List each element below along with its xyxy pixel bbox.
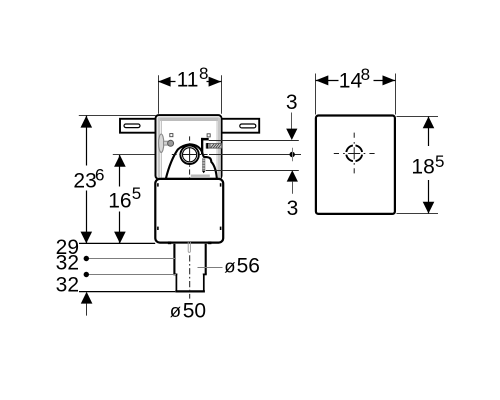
svg-text:18: 18 xyxy=(411,155,434,178)
svg-text:6: 6 xyxy=(95,166,104,185)
left wing slot xyxy=(124,124,140,128)
14.8 dimension line xyxy=(316,80,396,82)
svg-text:14: 14 xyxy=(339,70,363,93)
14.8 left extension line xyxy=(315,74,317,115)
wire: 23.6 top extension line xyxy=(79,115,156,117)
offset line bottom xyxy=(206,170,299,172)
svg-text:ø: ø xyxy=(170,300,181,321)
14.8 right extension line xyxy=(395,74,397,115)
lower pipe left wall xyxy=(175,274,177,291)
23.6 bottom arrow xyxy=(81,232,93,244)
right mounting wing xyxy=(222,119,260,133)
top 3 stem xyxy=(291,113,293,130)
wire: 16.5 / centreline horizontal extension xyxy=(113,154,177,156)
svg-text:8: 8 xyxy=(361,65,370,84)
dot terminator 2 xyxy=(84,256,89,261)
lower box xyxy=(155,179,223,243)
svg-text:8: 8 xyxy=(199,64,208,83)
svg-text:5: 5 xyxy=(132,184,141,203)
hatch lines on stub xyxy=(211,144,221,148)
svg-text:3: 3 xyxy=(286,91,298,114)
18.5 bottom extension line xyxy=(397,213,439,215)
upper pipe right wall xyxy=(205,244,207,275)
bottom tab left xyxy=(168,241,171,244)
svg-text:32: 32 xyxy=(56,274,79,297)
dot terminator 3 xyxy=(84,272,89,277)
centre dot stem xyxy=(292,148,294,162)
pipe end line xyxy=(79,291,175,293)
11.8 left extension line xyxy=(158,75,160,114)
vertical centreline through ring (dash-dot) xyxy=(189,136,191,185)
svg-text:ø: ø xyxy=(224,256,235,277)
ø56 leader xyxy=(198,267,223,269)
plate hole horizontal centreline xyxy=(334,153,375,155)
11.8 left arrow xyxy=(158,77,171,87)
top 3 arrow xyxy=(286,129,297,140)
lower pipe fill xyxy=(177,274,203,291)
corner tick bottom-left xyxy=(157,227,159,230)
svg-text:56: 56 xyxy=(237,254,260,277)
right wing slot xyxy=(240,124,256,128)
svg-text:3: 3 xyxy=(287,197,299,220)
corner tick top-right xyxy=(220,183,222,186)
dot line 3 xyxy=(86,274,176,276)
svg-text:5: 5 xyxy=(435,152,444,171)
threaded rod xyxy=(202,158,205,170)
lower pipe right wall xyxy=(203,274,205,291)
housing inner edge line right xyxy=(216,121,218,179)
pipe white fill xyxy=(173,244,206,275)
plate hole symbol arcs xyxy=(346,145,362,161)
stub clamp bar b xyxy=(209,143,210,148)
screw knob xyxy=(168,140,174,146)
upper housing box xyxy=(156,115,222,179)
16.5 dimension line xyxy=(119,155,121,243)
svg-text:11: 11 xyxy=(177,68,199,91)
bottom 3 stem xyxy=(292,182,294,194)
transition ledge right xyxy=(203,273,207,275)
corner tick top-left xyxy=(157,183,159,186)
svg-text:50: 50 xyxy=(183,299,206,322)
bottom tab right xyxy=(208,241,211,244)
offset line top xyxy=(209,140,299,142)
bottom 3 arrow xyxy=(287,170,298,181)
14.8 right arrow xyxy=(383,75,396,85)
18.5 top arrow xyxy=(423,117,435,129)
23.6 top arrow xyxy=(81,116,93,128)
14.8 left arrow xyxy=(316,75,329,85)
corner tick bottom-right xyxy=(220,227,222,230)
pipe bottom edge xyxy=(175,290,205,292)
svg-text:16: 16 xyxy=(108,189,131,212)
reference line box bottom xyxy=(79,242,155,244)
screw shaft xyxy=(164,141,169,145)
pipe centreline (dash-dot) xyxy=(189,255,191,298)
transition ledge left xyxy=(173,273,177,275)
stub clamp bar a xyxy=(206,143,208,149)
housing inner gray left strip xyxy=(158,118,161,179)
dot line 2 xyxy=(86,258,176,260)
housing inner gray right strip xyxy=(218,118,221,179)
rod threads xyxy=(202,160,205,170)
18.5 bottom arrow xyxy=(423,202,435,214)
screw lens (left fixing) xyxy=(159,134,164,152)
outlet ring outer xyxy=(180,146,198,164)
pipe slot line a xyxy=(188,242,190,252)
housing inner gray top band xyxy=(158,117,219,121)
cover plate xyxy=(316,116,395,214)
rod tip arrow xyxy=(202,171,206,173)
hatched horizontal stub xyxy=(206,144,222,149)
svg-text:23: 23 xyxy=(73,169,96,192)
svg-text:32: 32 xyxy=(56,251,79,274)
16.5 top arrow xyxy=(114,155,126,167)
small square hole right xyxy=(207,134,210,137)
stack bottom arrow stem xyxy=(86,303,88,315)
horizontal centreline through ring (dash-dot) xyxy=(172,154,208,156)
offset centre line xyxy=(209,154,301,156)
18.5 top extension line xyxy=(397,116,439,118)
L-shaped fitting vertical bar xyxy=(201,138,203,154)
housing inner edge line left xyxy=(161,121,163,179)
11.8 right extension line xyxy=(221,75,223,114)
23.6 dimension line xyxy=(86,116,88,244)
bottom gray bar inside body xyxy=(191,175,210,177)
plate hole vertical centreline xyxy=(353,133,355,174)
11.8 dimension line xyxy=(158,81,222,83)
centre dot xyxy=(290,152,295,157)
16.5 bottom arrow xyxy=(114,232,126,244)
outlet ring inner xyxy=(183,148,197,162)
small square hole left xyxy=(170,134,173,137)
11.8 right arrow xyxy=(209,77,222,87)
upper pipe left wall xyxy=(173,244,175,275)
dome (trap cover outline) xyxy=(166,144,217,179)
left mounting wing xyxy=(120,119,156,133)
stack bottom arrow xyxy=(81,292,93,304)
L-shaped fitting top hook xyxy=(201,138,209,141)
18.5 dimension line xyxy=(428,117,430,214)
